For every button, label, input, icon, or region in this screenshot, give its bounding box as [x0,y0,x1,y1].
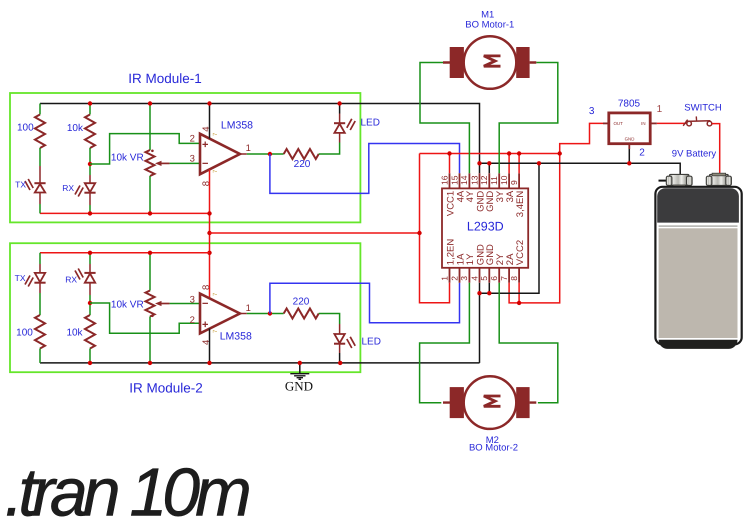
junction 10k/top rail [88,101,92,105]
wire: module2 top +5V rail (red) [40,252,210,254]
svg-text:.tran 10m: .tran 10m [5,455,250,531]
motor M2 [443,401,536,403]
junction 10k/RX/op-amp input [88,162,92,166]
svg-text:−: − [202,298,208,310]
TX IR LED (module2) [35,273,45,282]
svg-text:10k: 10k [66,328,83,339]
svg-text:3: 3 [459,276,469,281]
LED (module1) [334,124,344,133]
wire: op-amp1 output [240,153,247,155]
wire: RX to bottom rail [89,193,91,205]
junction pin16/+5V rail [447,151,451,155]
svg-text:LED: LED [361,118,380,129]
wire: op-amp2 pin4 to bottom rail [209,329,211,363]
junction 10k/bottom rail (module2) [88,361,92,365]
wire: VCC2 drop from +5V rail to pins 7,8 [509,154,560,303]
resistor 220 (module2) [284,309,319,319]
wire: op-amp1 pin4 to top rail [209,104,211,139]
svg-text:VCC2: VCC2 [515,240,526,265]
wire: pin9 3,4EN [518,154,520,174]
potentiometer 10k VR (module2) [146,291,155,317]
wire: 100ohm to bottom rail (module2) [39,349,41,363]
wire: 7805 GND pin to bus [628,144,630,149]
potentiometer 10k VR (module1) [146,150,155,176]
ground symbol [299,363,301,373]
wire: op-amp2 output [240,313,247,315]
wire: pin12 GND [488,163,490,173]
junction 7805 GND/bus [627,161,631,165]
wire: 220 to LED (module2) [319,314,340,325]
svg-text:8: 8 [509,276,519,281]
svg-text:14: 14 [459,175,469,185]
svg-text:IN: IN [641,121,645,126]
svg-text:9: 9 [509,180,519,185]
svg-text:3,4EN: 3,4EN [515,191,526,218]
svg-text:IR Module-2: IR Module-2 [129,381,203,396]
svg-text:3: 3 [589,106,595,117]
IR Module-1 box [10,93,360,222]
junction power column / module2 top rail [207,251,211,255]
wire: motor M2 right (2Y pin6) [499,283,558,403]
wire: +5V link to op-amp power column [210,232,420,234]
junction VCC2 drop/+5V rail [558,151,562,155]
svg-text:BO Motor-2: BO Motor-2 [469,443,518,454]
wire: TX to 100ohm (module2) [39,283,41,293]
wire: VR bottom link [149,176,151,213]
VR wiper arrow (module2) [158,303,170,305]
wire: LED to top rail (module1) [339,114,341,124]
wire: 7805 OUT stub [603,122,609,124]
svg-text:10k: 10k [67,123,84,134]
wire: +5V rail from 7805 OUT [420,153,560,155]
wire: elbow junction to op-amp + input (module2 pin2) [90,303,200,333]
junction VR/top rail [148,101,152,105]
svg-text:1: 1 [246,143,251,154]
svg-text:1: 1 [246,303,251,314]
svg-text:IR Module-1: IR Module-1 [128,71,202,86]
resistor 10k (module1) [85,115,95,148]
node op-amp2 output [268,311,272,315]
svg-text:TX: TX [15,180,26,190]
motor M1 [443,61,536,63]
junction VR/bottom rail [148,211,152,215]
svg-text:2: 2 [449,276,459,281]
wire: module1 top GND rail (black) going right and down to L293D pin 13 [40,104,480,174]
wire: motor M2 left (1Y pin3) [420,283,470,403]
LED (module2) [334,334,344,343]
junction pin12/GND bus [487,161,491,165]
junction pin4/GND loop [477,291,481,295]
svg-text:16: 16 [439,175,449,185]
svg-text:4: 4 [201,340,212,345]
wire: 100ohm to TX [39,148,41,166]
svg-text:8: 8 [201,285,212,290]
wire: module2 bottom GND rail (black) going right to L293D pin4 [40,362,480,364]
svg-text:LED: LED [362,337,381,348]
svg-text:100: 100 [17,123,34,134]
svg-text:+: + [202,139,208,151]
battery plus terminal [710,174,729,185]
svg-text:TX: TX [15,273,26,283]
wire: motor M1 left (4Y pin14) [420,63,469,174]
wire: op-amp power column (pin8 module1 down to pin8 module2) [209,169,211,298]
battery minus terminal [670,174,689,185]
svg-text:7: 7 [499,276,509,281]
svg-text:LM358: LM358 [220,330,252,342]
resistor 100 (module1) [35,115,45,148]
svg-text:GND: GND [285,379,313,394]
svg-text:100: 100 [16,328,33,339]
resistor 10k (module2) [85,315,95,349]
svg-text:6: 6 [489,276,499,281]
svg-text:OUT: OUT [614,121,624,126]
svg-text:5: 5 [479,276,489,281]
svg-text:1: 1 [439,276,449,281]
svg-text:8: 8 [201,181,212,186]
svg-text:4: 4 [201,127,212,132]
wire: chip bottom GND pins 4,5 loop up to GND bus [479,283,481,363]
wire: VR wiper to op-amp - input (module2 pin3) [170,303,200,305]
wire: 7805 IN stub [650,122,657,124]
svg-text:220: 220 [293,296,310,307]
wire: LED to bottom rail (module2) [339,344,341,353]
svg-text:4: 4 [469,276,479,281]
junction RX/10k/op-amp input (module2) [88,301,92,305]
junction pin4/bottom rail (module2) [207,361,211,365]
wire: VR wiper to op-amp - input (pin3) [170,162,200,164]
op-amp U1 LM358 (module1) [200,134,240,174]
node op-amp1 output [268,152,272,156]
junction power column / +5V link [207,231,211,235]
junction pin5/GND loop [487,291,491,295]
junction pin13 column/GND bus [477,161,481,165]
junction +5V link/column [417,231,421,235]
L293D pin stubs top [450,173,520,188]
wire: elbow 10k junction to op-amp + input (pin2) [90,134,200,164]
junction LED/top rail [337,101,341,105]
wire: switch to battery + [712,124,720,175]
svg-text:220: 220 [294,159,311,170]
svg-text:11: 11 [489,176,499,185]
wire: 10k to bottom rail (module2) [89,349,91,363]
wire: VR top link [149,104,151,151]
junction pin9/+5V rail [517,151,521,155]
svg-text:LM358: LM358 [221,119,253,131]
junction RX/bottom rail [88,211,92,215]
L293D chip body U3 [442,188,528,267]
svg-text:GND: GND [625,137,635,142]
wire: op-amp1 output blue to L293D pin 15 (4A) [270,144,460,194]
svg-text:−: − [202,158,208,170]
svg-text:3: 3 [190,153,195,164]
wire: VR top link (module2) [149,253,151,291]
junction pin10/+5V rail [507,151,511,155]
battery minus sign [659,180,667,182]
svg-text:10k VR: 10k VR [111,153,144,164]
svg-text:RX: RX [62,183,74,193]
wire: RX top link (module2) [89,253,91,264]
resistor 220 (module1) [284,149,319,159]
RX photodiode (module1) [85,183,95,192]
wire: TX top link (module2) [39,253,41,264]
voltage regulator 7805 [609,113,650,144]
svg-text:15: 15 [449,175,459,185]
RX photodiode (module2) [84,272,95,274]
wire: TX to bottom rail [39,193,41,205]
svg-text:7805: 7805 [618,98,641,109]
svg-text:12: 12 [479,175,489,185]
wire: 220 to LED (module1) [319,143,340,155]
svg-text:10: 10 [499,175,509,185]
wire: motor M1 right (3Y pin11) [499,63,558,174]
wire: RX to 10k junction (module2) [89,283,91,295]
junction RX/top rail (module2) [88,251,92,255]
wire: GND bus from pin13 column to battery minus [480,163,681,175]
wire: +5V down left column feeding op-amps and pin 1 [420,154,450,303]
wire: op-amp2 output blue to L293D pin 2 (1A) [270,283,460,323]
svg-text:RX: RX [65,275,77,285]
svg-text:2: 2 [639,148,645,159]
wire: module1 bottom +5V rail (red) [40,212,210,214]
svg-text:BO Motor-1: BO Motor-1 [465,20,514,31]
junction VR/top rail (module2) [148,251,152,255]
svg-text:13: 13 [469,175,479,185]
junction pin8/VCC2 wire [517,301,521,305]
junction ground/bottom rail [298,361,302,365]
svg-text:3: 3 [190,295,195,306]
svg-text:2: 2 [190,133,195,144]
junction power column / module1 bottom rail [207,211,211,215]
wire: 10k to RX junction [89,148,91,175]
junction GND loop/GND bus [537,161,541,165]
TX IR LED (module1) [34,182,45,184]
VR wiper arrow [158,162,170,164]
svg-text:9V Battery: 9V Battery [672,149,717,160]
battery body [655,187,741,344]
L293D pin stubs bottom [450,268,520,283]
svg-text:L293D: L293D [467,220,504,234]
svg-text:1: 1 [657,104,663,115]
junction LED/bottom rail (module2) [338,361,342,365]
wire: 100ohm top link [39,104,41,115]
svg-text:+: + [202,319,208,331]
op-amp U2 LM358 (module2) [200,294,240,334]
svg-text:2: 2 [190,315,195,326]
wire: pin10 3A [508,154,510,174]
svg-text:SWITCH: SWITCH [684,102,722,113]
wire: VR bottom link (module2) [149,317,151,363]
svg-text:10k VR: 10k VR [111,300,144,311]
junction VR/bottom rail (module2) [148,361,152,365]
wire: 10k top link [89,104,91,115]
IR Module-2 box [10,243,360,372]
junction pin4/top rail [207,101,211,105]
wire: pin16 VCC1 [449,154,451,174]
resistor 100 (module2) [35,315,45,349]
